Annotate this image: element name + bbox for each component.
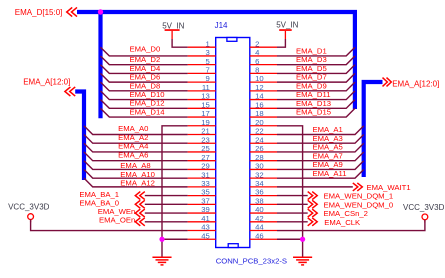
wire EMA_D12 (pin 15): [101, 99, 188, 109]
svg-text:25: 25: [201, 144, 210, 153]
power symbol VCC_3V3D left: [8, 202, 50, 222]
pin numbers left column: [201, 39, 210, 240]
wire EMA_A11 (pin 32): [277, 169, 364, 178]
svg-text:EMA_A3: EMA_A3: [313, 134, 343, 143]
wire EMA_WEn (pin 39): [98, 207, 188, 217]
svg-text:15: 15: [201, 100, 210, 109]
svg-text:EMA_A12: EMA_A12: [120, 179, 155, 188]
svg-text:4: 4: [255, 48, 260, 57]
svg-text:EMA_A0: EMA_A0: [118, 124, 148, 133]
svg-text:17: 17: [201, 109, 210, 118]
svg-text:EMA_BA_1: EMA_BA_1: [79, 190, 119, 199]
svg-text:EMA_WAIT1: EMA_WAIT1: [367, 183, 411, 192]
wire EMA_D8 (pin 11): [101, 81, 188, 91]
svg-text:5V_IN: 5V_IN: [276, 21, 298, 30]
svg-text:EMA_A5: EMA_A5: [313, 143, 343, 152]
svg-text:EMA_A2: EMA_A2: [118, 133, 148, 142]
svg-text:19: 19: [201, 118, 210, 127]
svg-text:16: 16: [255, 100, 264, 109]
wire EMA_A1 (pin 22): [277, 125, 364, 134]
svg-text:1: 1: [206, 39, 210, 48]
svg-text:35: 35: [201, 188, 210, 197]
junction dot left ground rail: [159, 237, 164, 242]
svg-text:EMA_D1: EMA_D1: [296, 46, 327, 55]
wire EMA_D1 (pin 4): [277, 46, 355, 56]
wire EMA_D4 (pin 7): [101, 64, 188, 74]
wire EMA_A10 (pin 31): [84, 169, 188, 179]
pin numbers right column: [255, 39, 264, 240]
svg-text:VCC_3V3D: VCC_3V3D: [403, 203, 445, 212]
svg-text:42: 42: [255, 214, 264, 223]
wire EMA_D5 (pin 8): [277, 64, 355, 74]
wire EMA_A7 (pin 28): [277, 151, 364, 160]
wire pin 20 to ground rail: [277, 126, 303, 258]
wire pin 19 to ground rail: [162, 126, 188, 258]
svg-text:46: 46: [255, 231, 264, 240]
svg-text:EMA_CLK: EMA_CLK: [324, 218, 361, 227]
wire EMA_A6 (pin 27): [84, 150, 188, 160]
svg-text:EMA_D12: EMA_D12: [130, 99, 165, 108]
wire EMA_BA_0 (pin 37): [79, 199, 187, 209]
svg-text:41: 41: [201, 214, 210, 223]
bus EMA_A right branch: [364, 82, 383, 177]
svg-text:27: 27: [201, 153, 210, 162]
wire EMA_D3 (pin 6): [277, 55, 355, 65]
svg-text:5V_IN: 5V_IN: [162, 21, 184, 30]
wire EMA_D2 (pin 5): [101, 55, 188, 65]
junction dot right ground rail: [300, 237, 305, 242]
svg-text:EMA_WEN_DQM_0: EMA_WEN_DQM_0: [324, 200, 394, 209]
wire EMA_D13 (pin 16): [277, 99, 355, 109]
connector pins right column (2..46): [250, 47, 277, 239]
svg-text:EMA_A4: EMA_A4: [118, 142, 149, 151]
wire EMA_OEn (pin 41): [99, 216, 188, 226]
svg-text:30: 30: [255, 162, 264, 171]
svg-text:38: 38: [255, 196, 264, 205]
svg-text:9: 9: [206, 74, 210, 83]
svg-text:44: 44: [255, 223, 264, 232]
svg-text:EMA_A8: EMA_A8: [120, 161, 150, 170]
wire EMA_D14 (pin 17): [101, 107, 188, 117]
bus EMA_D left branch: [98, 12, 102, 118]
svg-text:EMA_A7: EMA_A7: [313, 151, 343, 160]
svg-text:EMA_WEN_DQM_1: EMA_WEN_DQM_1: [324, 192, 394, 201]
wire EMA_D9 (pin 12): [277, 81, 355, 91]
svg-text:EMA_D13: EMA_D13: [296, 99, 331, 108]
svg-text:11: 11: [202, 83, 210, 92]
svg-text:18: 18: [255, 109, 264, 118]
bus EMA_D top: [77, 12, 355, 109]
wire EMA_A3 (pin 24): [277, 134, 364, 143]
wire EMA_A4 (pin 25): [84, 142, 188, 152]
svg-text:EMA_D9: EMA_D9: [296, 81, 327, 90]
svg-text:6: 6: [255, 57, 259, 66]
svg-text:EMA_D8: EMA_D8: [130, 81, 161, 90]
svg-text:40: 40: [255, 205, 264, 214]
wire 5V_IN to pin 2: [277, 39, 285, 47]
svg-text:J14: J14: [215, 21, 228, 30]
wire EMA_D15 (pin 18): [277, 108, 355, 118]
svg-text:20: 20: [255, 118, 264, 127]
svg-text:EMA_A11: EMA_A11: [313, 169, 347, 178]
wire EMA_D6 (pin 9): [101, 73, 188, 83]
svg-text:EMA_D6: EMA_D6: [130, 73, 161, 82]
connector pins left column (1..45): [188, 47, 216, 239]
junction dot on EMA_D bus: [98, 9, 103, 14]
svg-text:EMA_D2: EMA_D2: [130, 55, 161, 64]
svg-text:13: 13: [201, 92, 210, 101]
connector J14 body: [216, 38, 250, 248]
svg-text:EMA_D14: EMA_D14: [130, 107, 166, 116]
wire EMA_CSn_2 (pin 40): [277, 209, 368, 218]
wire EMA_WEN_DQM_0 (pin 38): [277, 200, 393, 209]
svg-text:31: 31: [201, 170, 210, 179]
svg-text:37: 37: [201, 196, 210, 205]
svg-text:45: 45: [201, 231, 210, 240]
wire pin 45 to ground rail: [162, 238, 188, 240]
wire EMA_A5 (pin 26): [277, 143, 364, 152]
wire EMA_D0 (pin 3): [101, 45, 188, 56]
wire EMA_WEN_DQM_1 (pin 36): [277, 192, 393, 201]
svg-text:21: 21: [201, 127, 210, 136]
svg-text:EMA_D0: EMA_D0: [130, 45, 161, 54]
svg-text:12: 12: [255, 83, 264, 92]
svg-text:2: 2: [255, 39, 259, 48]
wire EMA_CLK (pin 42): [277, 218, 361, 227]
wire EMA_D7 (pin 10): [277, 73, 355, 83]
svg-text:14: 14: [255, 92, 264, 101]
svg-text:EMA_A9: EMA_A9: [313, 160, 343, 169]
svg-text:EMA_A[12:0]: EMA_A[12:0]: [23, 77, 70, 86]
wire EMA_D10 (pin 13): [101, 90, 188, 100]
wire 5V_IN to pin 1: [172, 39, 188, 47]
wire EMA_A9 (pin 30): [277, 160, 364, 169]
power symbol VCC_3V3D right: [403, 203, 445, 223]
svg-text:EMA_A10: EMA_A10: [120, 170, 155, 179]
svg-text:EMA_A[12:0]: EMA_A[12:0]: [392, 79, 439, 88]
svg-text:EMA_D5: EMA_D5: [296, 64, 327, 73]
wire EMA_A2 (pin 23): [84, 133, 188, 143]
svg-text:EMA_D7: EMA_D7: [296, 73, 327, 82]
ground symbol right: [293, 257, 312, 265]
bus EMA_A left branch: [75, 92, 84, 181]
svg-text:10: 10: [255, 74, 264, 83]
svg-text:EMA_D4: EMA_D4: [130, 64, 161, 73]
svg-text:39: 39: [201, 205, 210, 214]
svg-text:EMA_D11: EMA_D11: [296, 90, 330, 99]
svg-text:24: 24: [255, 135, 264, 144]
svg-text:7: 7: [206, 65, 210, 74]
svg-text:36: 36: [255, 188, 264, 197]
svg-text:EMA_WEn: EMA_WEn: [98, 207, 136, 216]
power symbol 5V_IN left (pin 1): [162, 21, 184, 39]
svg-text:EMA_OEn: EMA_OEn: [99, 216, 135, 225]
power symbol 5V_IN right (pin 2): [276, 21, 298, 39]
svg-text:8: 8: [255, 65, 259, 74]
wire EMA_A12 (pin 33): [84, 178, 188, 188]
svg-text:28: 28: [255, 153, 264, 162]
svg-text:EMA_A6: EMA_A6: [118, 150, 148, 159]
wire EMA_WAIT1 (pin 34): [277, 183, 411, 192]
wire VCC_3V3D to pin 43: [31, 220, 188, 231]
svg-text:5: 5: [206, 57, 210, 66]
svg-text:VCC_3V3D: VCC_3V3D: [8, 202, 50, 211]
svg-text:EMA_D[15:0]: EMA_D[15:0]: [15, 8, 63, 17]
svg-text:EMA_D15: EMA_D15: [296, 108, 331, 117]
wire EMA_A8 (pin 29): [84, 161, 188, 171]
svg-text:EMA_D10: EMA_D10: [130, 90, 165, 99]
svg-text:43: 43: [201, 223, 210, 232]
svg-text:34: 34: [255, 179, 264, 188]
svg-text:29: 29: [201, 162, 210, 171]
svg-text:33: 33: [201, 179, 210, 188]
svg-text:22: 22: [255, 127, 264, 136]
wire pin 46 to ground rail: [277, 238, 303, 240]
svg-text:EMA_CSn_2: EMA_CSn_2: [324, 209, 368, 218]
svg-text:EMA_D3: EMA_D3: [296, 55, 327, 64]
svg-text:32: 32: [255, 170, 264, 179]
wire EMA_A0 (pin 21): [84, 124, 188, 134]
wire VCC_3V3D to pin 44: [277, 220, 425, 231]
svg-text:3: 3: [206, 48, 210, 57]
svg-text:26: 26: [255, 144, 264, 153]
ground symbol left: [152, 257, 171, 265]
svg-text:EMA_A1: EMA_A1: [313, 125, 343, 134]
svg-text:CONN_PCB_23x2-S: CONN_PCB_23x2-S: [216, 257, 287, 266]
wire EMA_BA_1 (pin 35): [79, 190, 187, 200]
svg-text:23: 23: [201, 135, 210, 144]
wire EMA_D11 (pin 14): [277, 90, 355, 100]
